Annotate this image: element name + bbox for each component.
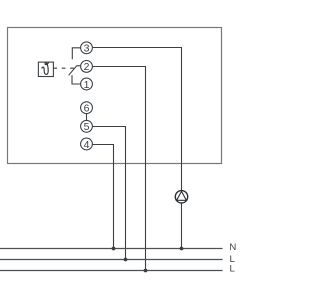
svg-text:L: L bbox=[230, 264, 236, 275]
N supply line bbox=[0, 248, 223, 250]
wire terminal 5 to middle L line bbox=[92, 127, 125, 260]
terminal 1 bbox=[81, 78, 93, 91]
junction dot wire2/L bbox=[144, 269, 148, 273]
L supply line (middle) bbox=[0, 259, 223, 261]
switch arm from terminal 2 bbox=[69, 66, 81, 76]
terminal 3 bbox=[81, 42, 93, 55]
svg-text:4: 4 bbox=[84, 139, 90, 151]
terminal 4 bbox=[81, 138, 93, 151]
wire pump to N line bbox=[181, 203, 183, 249]
terminal 5 bbox=[81, 120, 93, 133]
L supply line (bottom) bbox=[0, 270, 223, 272]
svg-text:3: 3 bbox=[84, 43, 90, 55]
svg-text:N: N bbox=[229, 242, 236, 253]
theta temperature symbol bbox=[42, 63, 49, 75]
svg-text:2: 2 bbox=[84, 61, 90, 73]
device outline rectangle bbox=[8, 28, 222, 164]
thermostat sensor box bbox=[38, 62, 53, 76]
wire terminal 4 to N line bbox=[92, 145, 113, 249]
junction dot wire4/N bbox=[112, 247, 116, 251]
wire terminal 2 to bottom L line bbox=[92, 67, 145, 271]
junction dot wire5/L bbox=[124, 258, 128, 262]
switch fixed contact from terminal 1 bbox=[72, 75, 81, 84]
junction dot pump/N bbox=[180, 247, 184, 251]
terminal 2 bbox=[81, 61, 93, 74]
pump M1 bbox=[175, 191, 187, 203]
terminal 6 bbox=[81, 102, 93, 115]
wire terminal 6 to terminal 5 bbox=[86, 114, 88, 121]
svg-text:6: 6 bbox=[84, 103, 90, 115]
svg-text:5: 5 bbox=[84, 121, 90, 133]
wire terminal 3 to pump bbox=[92, 48, 181, 191]
svg-text:1: 1 bbox=[84, 79, 90, 91]
dashed actuator link bbox=[53, 67, 74, 69]
switch fixed contact from terminal 3 bbox=[72, 48, 80, 59]
